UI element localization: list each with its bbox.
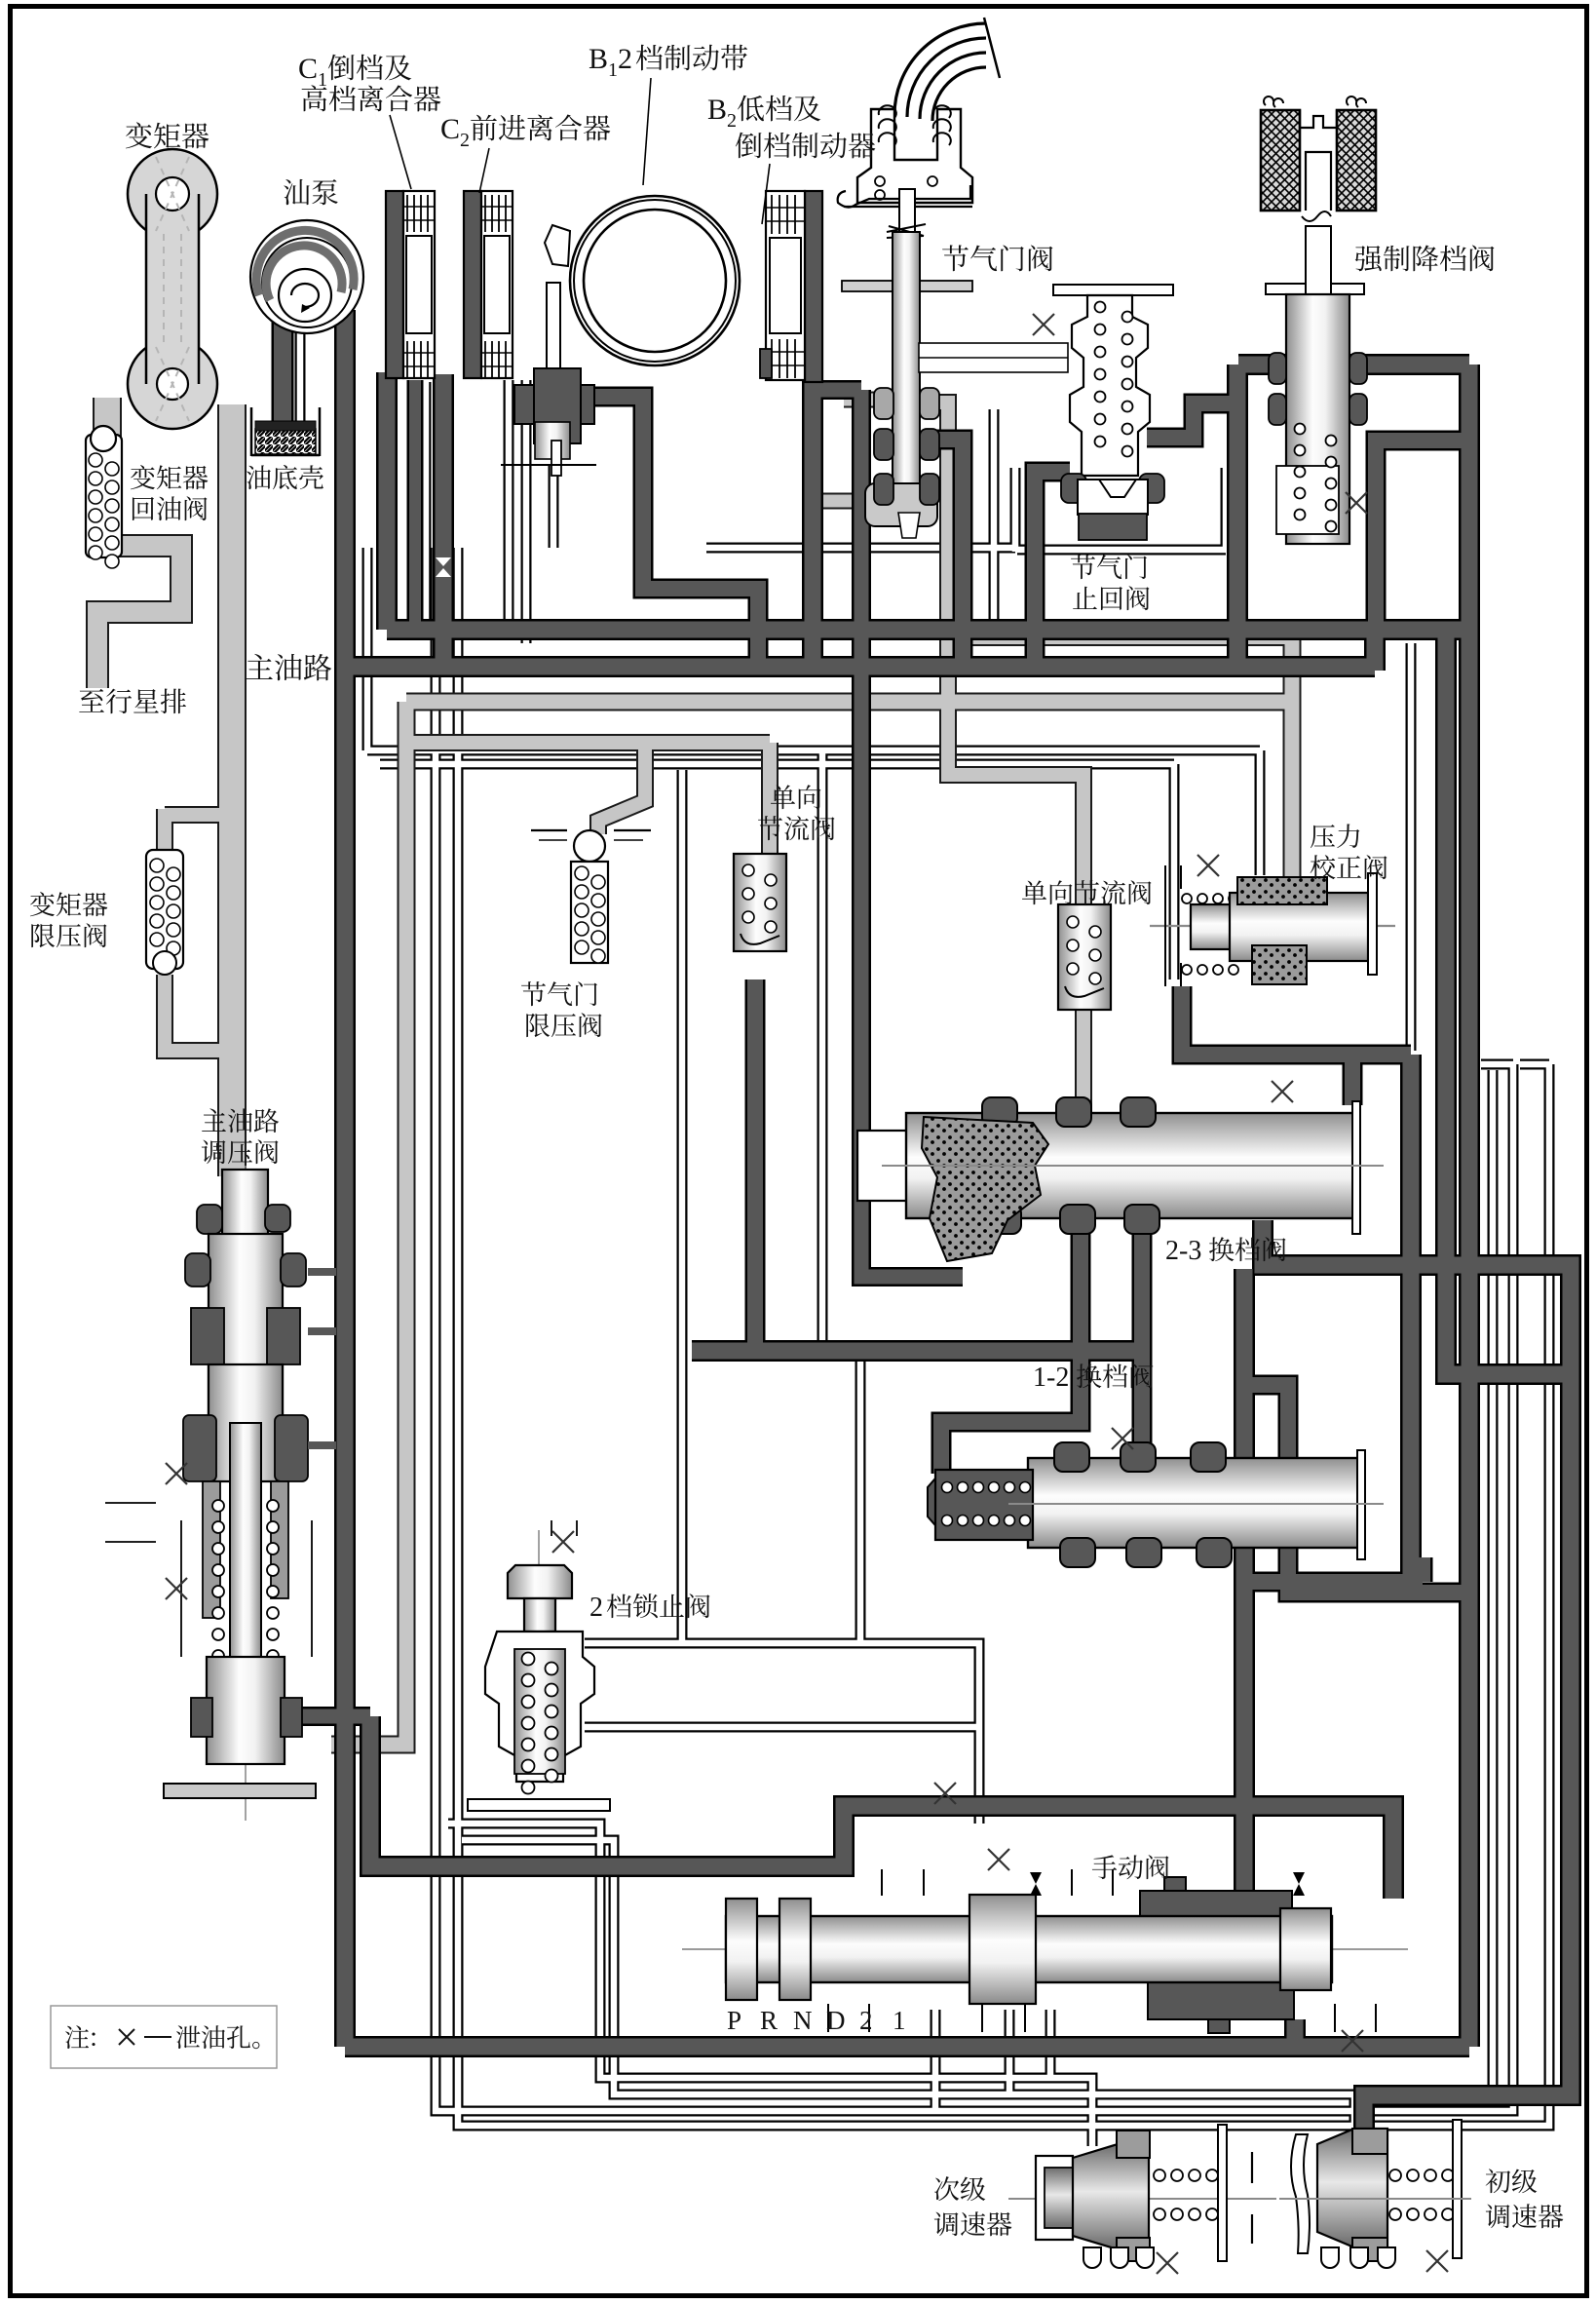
wire (thin) control line xyxy=(1481,1061,1513,1068)
wire (thin) control line xyxy=(991,409,998,629)
wire (dark) B1 servo apply line xyxy=(591,397,758,671)
wire (light) throttle branch to correction valve xyxy=(948,631,1292,644)
TC return valve 变矩器回油阀 xyxy=(86,435,122,557)
wire (light) feed throttle limit valve xyxy=(598,743,645,834)
main line regulator 主油路调压阀 xyxy=(245,1166,247,1821)
wire (dark) main line vertical from pump xyxy=(337,310,354,2047)
wire (dark) regulator to manual valve xyxy=(370,1716,1393,1899)
svg-text:1: 1 xyxy=(608,59,618,81)
wire (dark) C1 clutch feed xyxy=(379,372,396,630)
wire (light) converter/lube line xyxy=(158,809,171,856)
wire (thin) control line xyxy=(458,548,1549,2126)
svg-text:C: C xyxy=(440,113,460,145)
kickdown valve body xyxy=(1266,284,1364,294)
wire (dark) throttle valve supply xyxy=(928,440,963,671)
oil pump 汕泵 xyxy=(250,220,363,333)
wire (thin) control line xyxy=(448,1824,1092,2146)
throttle check valve 节气门止回阀 xyxy=(1053,285,1173,295)
wire (dark) 1-2 valve bottom link A xyxy=(1244,1574,1423,1590)
wire (light) converter/lube line xyxy=(165,975,236,1051)
wire (light) to planetary gearsets 至行星排 xyxy=(97,546,181,688)
wire (dark) header drop to governor feed xyxy=(1446,633,1571,1374)
kickdown valve 强制降档阀 solenoid coils xyxy=(1261,110,1300,211)
svg-text:1: 1 xyxy=(318,69,327,91)
wire (dark) drain line to 2-3 valve xyxy=(692,1343,1142,1360)
one-way throttle valve 单向节流阀 (left) xyxy=(734,854,786,951)
secondary governor 次级调速器 xyxy=(1008,2198,1276,2200)
throttle limit valve 节气门限压阀 xyxy=(531,829,567,831)
wire (dark) governor feed line xyxy=(1263,1220,1571,2138)
wire (dark) manual valve to bottom bus xyxy=(1287,2019,1304,2047)
wire (dark) clutch header H1 xyxy=(387,622,1473,638)
B1 servo xyxy=(514,385,594,424)
wire (thin) control line xyxy=(364,548,371,750)
svg-text:R: R xyxy=(760,2006,778,2035)
wire (dark) main line top header to kickdown valve xyxy=(1238,357,1469,373)
wire (dark) B2 brake feed xyxy=(805,292,821,671)
1-2 shift valve 1-2换档阀 xyxy=(1028,1458,1364,1548)
wire (light) throttle pressure header xyxy=(406,695,1292,710)
pipe network xyxy=(436,548,1513,2111)
svg-text:B: B xyxy=(589,43,608,75)
svg-text:C: C xyxy=(298,53,318,85)
svg-text:1-2: 1-2 xyxy=(1033,1363,1069,1393)
svg-text:2: 2 xyxy=(589,1593,603,1623)
wire (dark) 2-3 valve bottom port xyxy=(1134,1220,1150,1351)
wire (dark) check valve left port xyxy=(1035,472,1070,671)
wire (dark) main line right riser xyxy=(1462,365,1478,2047)
note 泄油孔 box xyxy=(51,2006,277,2068)
wire (thin) control line xyxy=(1171,764,1178,979)
primary governor 初级调速器 xyxy=(1291,2134,1310,2253)
wire (dark) main-pressure line xyxy=(813,383,861,398)
wire (thin) control line xyxy=(706,545,1015,552)
wire (dark) pump suction from oil pan xyxy=(274,294,291,429)
svg-text:D: D xyxy=(826,2006,846,2035)
wire (light) feed to pressure correction valve xyxy=(1285,637,1300,889)
wire (dark) one-way valve drain xyxy=(747,979,763,1351)
wire (dark) line to 2-3 shift valve xyxy=(861,390,963,1277)
wire (thin) control line xyxy=(819,750,826,1345)
wire (thin) control line xyxy=(506,380,513,628)
labels xyxy=(390,115,411,189)
regulator side ports xyxy=(308,1268,336,1276)
wire (thin) control line xyxy=(551,466,557,548)
TC pressure limit valve 变矩器限压阀 xyxy=(146,850,183,969)
svg-text:B: B xyxy=(707,94,727,126)
svg-text:2: 2 xyxy=(859,2006,873,2035)
wire (thin) control line xyxy=(1047,2010,1054,2078)
torque converter 变矩器 xyxy=(128,149,217,429)
wire (dark) link B to riser xyxy=(1244,1385,1469,1593)
wire (dark) main line bottom bus xyxy=(345,2039,1469,2055)
wire (dark) main line 主油路 horizontal xyxy=(345,659,1375,675)
wire (thin) control line xyxy=(1490,1070,1497,2105)
wire (thin) control line xyxy=(585,1724,979,1731)
wire (thin) control line xyxy=(1408,643,1415,1051)
wire (thin) control line xyxy=(423,382,430,630)
wire (dark) 1-2 valve spring-end feed xyxy=(941,1230,1081,1474)
wire (thin) control line xyxy=(857,1361,864,1643)
brake B2 低档及倒档制动器 xyxy=(805,191,822,382)
wire (thin) control line xyxy=(1520,1061,1549,1068)
wire (thin) control line xyxy=(679,770,686,1642)
one-way throttle valve 单向节流阀 (right) xyxy=(1058,904,1111,1010)
wire (dark) 2-3 shift valve feed header xyxy=(1182,986,1411,1055)
wire (thin) control line xyxy=(1012,468,1019,552)
wire (light) throttle pressure tee xyxy=(406,736,770,749)
wire (thin) control line xyxy=(1007,2010,1013,2094)
clutch C2 前进离合器 xyxy=(464,191,481,378)
wire (thin) control line xyxy=(1223,468,1230,552)
wire (thin) control line xyxy=(585,1643,979,1824)
wire (light) throttle valve left port xyxy=(844,394,894,406)
wire (thin) control line xyxy=(380,761,1174,768)
wire (dark) kickdown valve branch xyxy=(1230,365,1246,671)
wire (thin) control line xyxy=(523,380,530,643)
throttle valve 节气门阀 xyxy=(894,23,986,121)
svg-text:2: 2 xyxy=(460,130,470,151)
wire (dark) C1 inner feed xyxy=(409,380,421,630)
svg-text:P: P xyxy=(727,2006,741,2035)
wire (thin) control line xyxy=(297,322,304,421)
manual valve 手动阀 xyxy=(682,1948,1408,1950)
wire (dark) check valve right port xyxy=(1147,403,1241,438)
wire (dark) main-pressure line xyxy=(1367,630,1384,671)
wire (dark) 1-2 valve top port xyxy=(1134,1351,1150,1454)
wire (dark) governor pressure riser xyxy=(1403,1055,1420,1582)
svg-text:2: 2 xyxy=(727,110,737,132)
brake band B1 2档制动带 xyxy=(570,196,740,365)
wire (dark) C2 clutch feed xyxy=(436,374,452,671)
wire (thin) control line xyxy=(1257,750,1264,875)
pressure correction valve 压力校正阀 xyxy=(1150,925,1395,927)
wire (dark) main-pressure line xyxy=(1415,1557,1430,1582)
clutch C1 倒档及高档离合器 xyxy=(386,191,403,378)
wire (thin) control line xyxy=(436,548,1513,2111)
2nd gear lock valve 2档锁止阀 xyxy=(538,1530,540,1645)
2-3 shift valve 2-3换档阀 xyxy=(857,1131,912,1201)
wire (dark) 2-3 valve to manual valve drop xyxy=(1236,1269,1253,1902)
wire (light) converter feed band to regulator xyxy=(219,404,245,1176)
svg-text:1: 1 xyxy=(893,2006,906,2035)
svg-text:2: 2 xyxy=(618,43,632,75)
wire (light) throttle pressure to regulator xyxy=(331,702,406,1745)
oil pan 油底壳 xyxy=(250,407,253,456)
wire (light) feed left one-way valve xyxy=(763,743,777,856)
wire (thin) control line xyxy=(462,1840,1354,2140)
wire (dark) 2-3 valve top port xyxy=(1345,1055,1360,1105)
wire (dark) kickdown output to header xyxy=(1376,441,1471,633)
svg-text:2-3: 2-3 xyxy=(1165,1236,1201,1266)
leader lines xyxy=(479,148,489,193)
wire (light) converter/lube line xyxy=(165,808,234,822)
wire (light) B2 area link xyxy=(820,495,867,508)
wire (light) throttle valve to right one-way valve xyxy=(935,403,1083,1111)
wire (dark) regulator outlet xyxy=(286,1709,370,1724)
wire (thin) control line xyxy=(932,2010,939,2111)
wire (thin) control line xyxy=(367,748,1260,754)
wire (thin) control line xyxy=(1017,547,1226,554)
svg-text:N: N xyxy=(793,2006,813,2035)
wire (light) TC drain to return valve xyxy=(95,398,120,437)
